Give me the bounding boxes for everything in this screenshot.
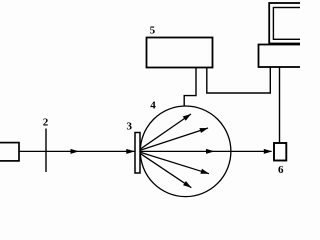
scatter arrow down-mid — [141, 153, 209, 174]
arrowhead on beam before sample 3 — [126, 149, 135, 154]
arrowhead on beam at x=79 — [71, 149, 80, 154]
svg-text:5: 5 — [150, 25, 156, 37]
scatter arrow up-steep — [140, 114, 191, 149]
beam line — [19, 150, 272, 152]
scatter arrow down-steep — [140, 153, 191, 187]
arrowhead on beam at detector 6 — [264, 149, 273, 154]
wire 5-to-sphere — [184, 68, 196, 107]
svg-text:2: 2 — [43, 117, 49, 129]
detector box 6 — [274, 143, 286, 161]
computer monitor outer — [269, 3, 302, 44]
source box (left, cropped) — [0, 143, 19, 161]
svg-text:4: 4 — [150, 100, 156, 112]
wire computer-to-detector — [279, 67, 281, 144]
computer monitor screen inner — [273, 8, 303, 40]
svg-text:3: 3 — [127, 121, 133, 133]
slit 2 — [45, 129, 47, 173]
arrowhead on beam inside sphere — [206, 149, 215, 154]
integrating sphere 4 — [140, 106, 231, 197]
svg-text:6: 6 — [278, 164, 284, 176]
sample cell 3 — [135, 133, 140, 174]
scatter arrow up-mid — [141, 128, 208, 150]
controller box 5 — [147, 38, 213, 68]
computer base — [259, 45, 303, 68]
wire 5-to-computer — [207, 67, 270, 94]
